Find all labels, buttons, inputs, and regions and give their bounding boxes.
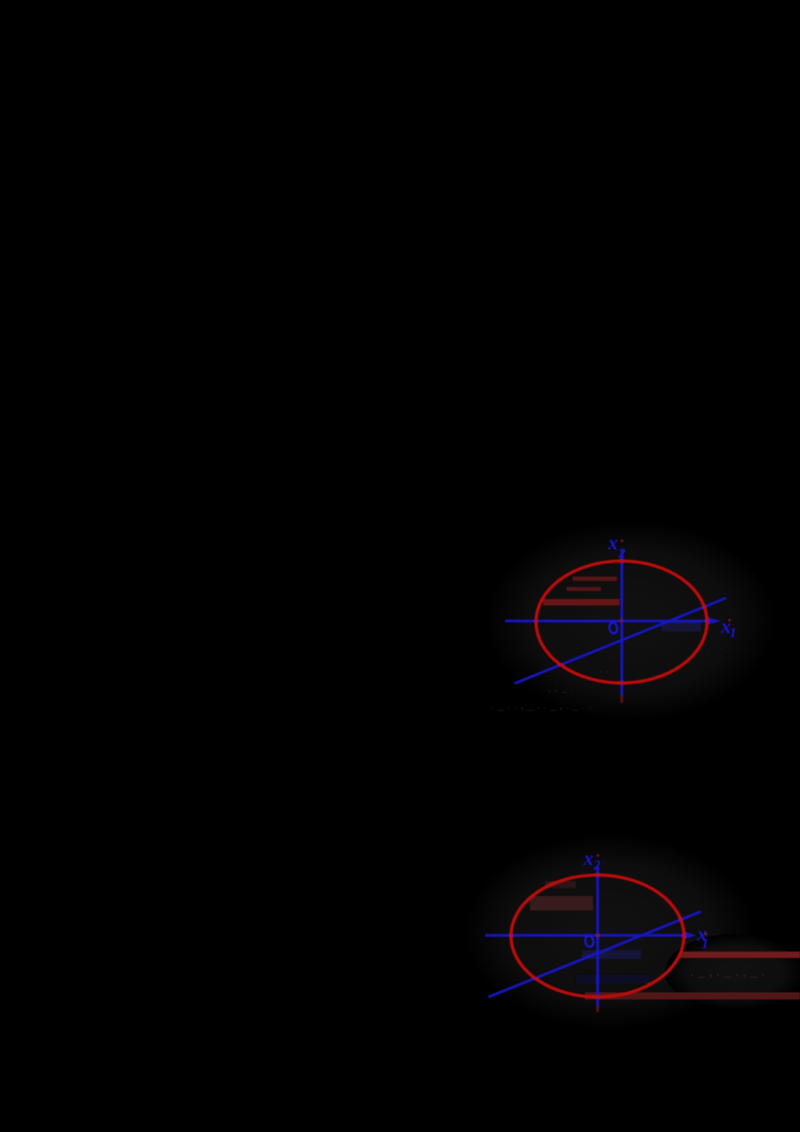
figure 2: red speck at x2 label [597,854,600,857]
figure 2: faint navy text band lower [576,975,650,984]
figure 1: red speck at x2 label [621,539,624,542]
figure 2: x2 axis (vertical) [596,866,599,1007]
figure 1: red origin dot [620,619,624,623]
figure 2: dimmed red text band above it [545,881,576,888]
figure 2: rotated principal axis line [489,912,702,998]
red text line right of figure 2 [680,952,800,959]
figure 2: x1 axis (horizontal) [485,934,689,937]
figure 1: dimmed red text bar a [573,577,618,582]
svg-text:. _ , . _ . , _ .: . _ , . _ . , _ . [690,964,765,980]
svg-text:2: 2 [593,859,601,874]
svg-text:1: 1 [730,626,737,641]
figure 1: label O (origin) [609,622,619,634]
figure 1: x1 axis arrowhead [707,617,722,625]
figure 1 backdrop [486,521,776,721]
svg-text:, . _ ,: , . _ , [701,640,723,652]
figure 2: red origin dot [596,934,600,938]
figure 2: red speck at x1 label [705,933,708,936]
figure 2: x1 axis arrowhead [684,931,697,939]
svg-text:2: 2 [618,547,626,562]
svg-text:. ,: . , [600,661,609,675]
figure 2: label O (origin) [584,935,594,947]
figure 2: dimmed red text band upper-left [530,896,593,911]
figure 1: dimmed navy text band [662,622,702,632]
svg-text:1: 1 [702,937,709,952]
figure 2: ellipse [511,875,684,997]
figure 1: faint text traces inside ellipse [548,661,609,694]
figure 2: x2 axis dimmed red bottom tip [596,1006,599,1012]
figure 1: rotated principal axis line [515,598,727,684]
svg-text:x: x [607,533,618,555]
figure 1: x1 axis (horizontal) [505,620,712,623]
figure 1: ellipse [536,561,707,683]
figure 1: red speck at x1 label [728,619,731,622]
svg-text:. _ . . , _ . . _ , . _ . .: . _ . . , _ . . _ , . _ . . [491,697,592,712]
svg-text:, ; _ .: , ; _ . [548,680,573,694]
figure 1: x2 axis dimmed red bottom tip [620,695,623,703]
figure 2: dimmed navy text band [582,950,641,959]
figure 1: x2 axis (vertical) [620,550,623,696]
figure 1: dimmed red text bar b [567,587,602,591]
svg-text:x: x [583,848,594,870]
red text line crossing bottom of figure 2 [585,992,800,999]
figure 2 backdrop [464,835,754,1029]
figure 1: dimmed red text bar c [543,599,620,606]
